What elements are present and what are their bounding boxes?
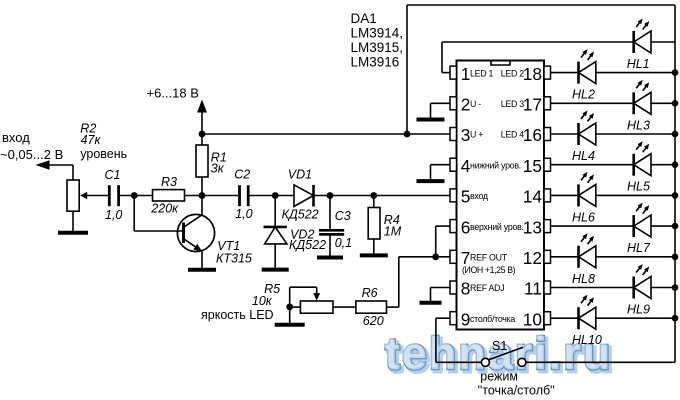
ground VD2 [262, 268, 289, 269]
pin 7 name line2 [462, 265, 516, 275]
wire HL9 to bus [651, 287, 675, 289]
svg-text:S1: S1 [492, 339, 507, 353]
capacitor C2 value [235, 207, 252, 221]
node C3 junction [327, 192, 334, 199]
svg-text:13: 13 [523, 217, 542, 237]
power label +6...18 V [147, 86, 199, 101]
pin 8 number [461, 279, 471, 299]
wire C3 down [329, 236, 331, 257]
pin 7 stub [450, 250, 457, 263]
wire HL3 to bus [651, 102, 675, 104]
svg-text:столб/точка: столб/точка [470, 314, 515, 324]
wire base drop [134, 196, 183, 232]
svg-text:0,1: 0,1 [335, 236, 352, 250]
ground VT1 emitter [188, 269, 216, 270]
svg-text:LED 4: LED 4 [501, 130, 525, 140]
pin 5 stub [450, 189, 457, 202]
svg-text:17: 17 [523, 95, 542, 115]
wire R5 to R6 [333, 306, 356, 308]
svg-text:вход: вход [2, 130, 30, 145]
pin 15 stub [544, 158, 551, 171]
LED HL9 [634, 264, 651, 299]
wire right bus [674, 5, 676, 362]
wire pin2 gnd [431, 103, 451, 118]
wire pin 17 to HL3 [551, 102, 634, 104]
ground R5 [275, 307, 305, 325]
resistor R4 label [384, 213, 402, 238]
svg-text:620: 620 [363, 314, 384, 328]
potentiometer R2 label [80, 122, 127, 162]
pin 3 name [470, 130, 483, 140]
wire HL6 to bus [596, 194, 675, 196]
transistor VT1 base bar [182, 223, 185, 244]
svg-text:12: 12 [523, 248, 542, 268]
pin 17 number [523, 95, 542, 115]
pin 3 stub [450, 128, 457, 141]
wire R1 to rail [201, 177, 203, 196]
svg-text:18: 18 [523, 64, 542, 84]
wire HL8 to bus [596, 256, 675, 258]
wire pin 12 to HL8 [551, 256, 579, 258]
pin 17 name [501, 99, 525, 109]
wire VD1 to pin5 [314, 195, 451, 197]
node power rail junction [199, 131, 206, 138]
LED HL1 label [627, 57, 650, 71]
resistor R6 label [362, 286, 378, 300]
svg-text:REF OUT: REF OUT [470, 253, 508, 263]
svg-text:1: 1 [461, 64, 471, 84]
svg-text:HL9: HL9 [627, 303, 650, 317]
wire riser top [407, 5, 675, 134]
capacitor C1 value [105, 208, 122, 222]
LED HL4 [579, 111, 596, 146]
LED HL4 label [572, 149, 595, 163]
node riser junction [404, 131, 411, 138]
svg-text:REF ADJ: REF ADJ [470, 283, 504, 293]
svg-text:HL6: HL6 [572, 210, 595, 224]
pin 8 stub [450, 281, 457, 294]
pin 9 number [461, 309, 471, 329]
wire pin8 gnd [431, 288, 451, 302]
LED HL5 label [627, 180, 650, 194]
potentiometer R5 label [252, 282, 280, 308]
wire pin 11 to HL9 [551, 287, 634, 289]
wire pin6 [436, 226, 450, 257]
capacitor C1 [109, 185, 118, 206]
pin 10 number [523, 309, 542, 329]
svg-text:VD1: VD1 [288, 168, 312, 182]
svg-text:LED 2: LED 2 [501, 68, 525, 78]
pin 9 stub [450, 312, 457, 325]
svg-text:LM3916: LM3916 [351, 55, 400, 70]
svg-text:3к: 3к [211, 162, 225, 176]
node bus junction HL3 [672, 100, 679, 107]
wire HL10 to bus [596, 317, 675, 319]
ground pin8 [420, 302, 442, 303]
transistor VT1 collector [184, 196, 202, 228]
svg-text:HL5: HL5 [627, 180, 650, 194]
node R4 junction [370, 192, 377, 199]
capacitor C2 label [234, 168, 250, 182]
node bus junction HL7 [672, 223, 679, 230]
diode VD1 label [288, 168, 312, 182]
svg-text:10к: 10к [252, 294, 273, 308]
wire pin 14 to HL6 [551, 194, 579, 196]
wire pin 16 to HL4 [551, 133, 579, 135]
capacitor C3 value [335, 236, 352, 250]
node bus junction HL4 [672, 131, 679, 138]
wire pin1 up [442, 42, 634, 73]
LED HL8 label [572, 272, 595, 286]
wire R2 bottom [72, 211, 74, 231]
svg-text:HL3: HL3 [627, 118, 650, 132]
wire R2 top [72, 165, 74, 180]
svg-text:1М: 1М [384, 225, 402, 239]
node R5 junction [286, 303, 293, 310]
svg-text:вход: вход [470, 191, 488, 201]
svg-text:1,0: 1,0 [235, 207, 252, 221]
svg-text:C3: C3 [335, 209, 351, 223]
ground pin2 [417, 118, 445, 120]
wire S1 to bus [526, 361, 675, 363]
LED HL6 [579, 172, 596, 207]
node collector junction [199, 192, 206, 199]
svg-text:LM3914,: LM3914, [351, 25, 404, 40]
svg-text:верхний уров.: верхний уров. [470, 222, 524, 232]
svg-text:2: 2 [461, 95, 471, 115]
wire R2 input arrow [36, 160, 74, 170]
resistor R6 value [363, 314, 384, 328]
wire R3 to C2 [185, 195, 240, 197]
resistor R4 [368, 208, 380, 240]
capacitor C3 label [335, 209, 351, 223]
svg-text:10: 10 [523, 309, 542, 329]
LED HL7 [634, 203, 651, 238]
pin 2 number [461, 95, 471, 115]
wire R4 down [373, 239, 375, 254]
pin 16 number [523, 125, 542, 145]
svg-text:"точка/столб": "точка/столб" [478, 384, 555, 398]
svg-text:КТ315: КТ315 [216, 252, 252, 266]
resistor R6 [356, 301, 387, 313]
pin 8 name [470, 283, 504, 293]
capacitor C3 [319, 230, 344, 234]
pin 18 stub [544, 66, 551, 79]
svg-text:R6: R6 [362, 286, 378, 300]
svg-text:220к: 220к [150, 202, 179, 216]
pin 1 name [470, 68, 494, 78]
LED HL6 label [572, 210, 595, 224]
wire pin 13 to HL7 [551, 225, 634, 227]
ground R2 [58, 232, 88, 233]
svg-text:КД522: КД522 [289, 238, 326, 252]
transistor VT1 circle [177, 214, 214, 251]
diode VD2 label [289, 228, 326, 253]
switch S1 [481, 347, 526, 366]
wire R6 up [387, 257, 399, 307]
pin 15 number [523, 156, 542, 176]
pin 9 name [470, 314, 515, 324]
svg-text:(ИОН +1,25 В): (ИОН +1,25 В) [462, 265, 516, 275]
wire to S1 [436, 361, 482, 363]
svg-text:~0,05...2 В: ~0,05...2 В [0, 147, 63, 162]
pin 10 stub [544, 312, 551, 325]
ground pin4 [417, 180, 445, 181]
svg-text:КД522: КД522 [282, 207, 319, 221]
pin 14 number [523, 187, 543, 207]
LED HL8 [579, 233, 596, 267]
svg-text:15: 15 [523, 156, 542, 176]
wire R4 top [373, 196, 375, 208]
IC notch [491, 61, 510, 66]
pin 14 stub [544, 189, 551, 202]
wire pin4 gnd [431, 165, 451, 180]
svg-text:HL7: HL7 [627, 241, 651, 255]
pin 5 name [470, 191, 488, 201]
pin 11 stub [544, 281, 551, 294]
IC DA1 label [351, 11, 404, 70]
svg-text:C2: C2 [234, 168, 250, 182]
LED HL10 label [572, 333, 602, 347]
svg-text:LM3915,: LM3915, [351, 40, 404, 55]
switch S1 mode label [478, 369, 555, 397]
svg-text:9: 9 [461, 309, 471, 329]
pin 4 number [461, 156, 471, 176]
wire VD2 down [274, 244, 276, 268]
svg-text:1,0: 1,0 [105, 208, 122, 222]
pin 12 number [523, 248, 542, 268]
wire HL7 to bus [651, 225, 675, 227]
LED HL10 [579, 295, 596, 330]
node bus junction HL9 [672, 284, 679, 291]
svg-text:HL8: HL8 [572, 272, 595, 286]
wire pin 18 to HL2 [551, 72, 579, 74]
svg-text:нижний уров.: нижний уров. [470, 160, 521, 170]
wire pin 15 to HL5 [551, 164, 634, 166]
LED HL2 label [572, 88, 595, 102]
node bus junction HL10 [672, 315, 679, 322]
resistor R3 [153, 190, 185, 201]
svg-text:5: 5 [461, 187, 471, 207]
LED HL5 [634, 141, 651, 176]
pin 17 stub [544, 97, 551, 110]
svg-text:U -: U - [470, 99, 481, 109]
svg-text:LED 1: LED 1 [470, 68, 494, 78]
wire C1 to R3 [119, 195, 153, 197]
watermark tehnari.ru [384, 327, 616, 382]
resistor R3 label [161, 175, 177, 189]
svg-text:C1: C1 [105, 168, 121, 182]
resistor R3 value [150, 202, 179, 216]
pin 3 number [461, 125, 471, 145]
svg-text:16: 16 [523, 125, 542, 145]
switch S1 label [492, 339, 507, 353]
svg-text:LED 3: LED 3 [501, 99, 525, 109]
diode VD2 [264, 227, 287, 244]
wire C3 top [329, 196, 331, 230]
wire HL5 to bus [651, 164, 675, 166]
node A junction [131, 192, 138, 199]
wire VD2 drop [274, 196, 276, 227]
pin 13 stub [544, 220, 551, 233]
capacitor C1 label [105, 168, 121, 182]
pin 5 number [461, 187, 471, 207]
potentiometer R5 [300, 301, 333, 313]
svg-text:HL2: HL2 [572, 88, 595, 102]
node VD2 junction [272, 192, 279, 199]
svg-text:HL4: HL4 [572, 149, 595, 163]
svg-text:R3: R3 [161, 175, 177, 189]
svg-text:14: 14 [523, 187, 543, 207]
ground R4 [360, 254, 388, 255]
diode VD1 [294, 185, 314, 207]
ground C3 [317, 256, 343, 257]
wire power arrow [197, 100, 207, 146]
svg-text:6: 6 [461, 217, 471, 237]
svg-text:DA1: DA1 [351, 11, 377, 26]
LED HL2 [579, 49, 596, 84]
pin 12 stub [544, 250, 551, 263]
resistor R1 label [211, 151, 227, 176]
resistor R1 [196, 145, 208, 177]
node bus junction HL6 [672, 192, 679, 199]
wire V rail [202, 133, 450, 135]
LED HL7 label [627, 241, 651, 255]
svg-text:47к: 47к [81, 133, 102, 147]
LED HL9 label [627, 303, 650, 317]
pin 13 number [523, 217, 542, 237]
node bus junction HL8 [672, 253, 679, 260]
svg-text:U +: U + [470, 130, 483, 140]
pin 2 name [470, 99, 481, 109]
brightness label [201, 308, 274, 322]
diode VD1 value [282, 207, 319, 221]
node bus junction HL2 [672, 69, 679, 76]
LED HL1 [634, 19, 651, 54]
svg-text:уровень: уровень [80, 147, 127, 161]
svg-text:яркость LED: яркость LED [201, 308, 274, 322]
pin 18 number [523, 64, 542, 84]
pin 18 name [501, 68, 525, 78]
node pins 6-7 junction [432, 253, 439, 260]
wire pin7 [399, 256, 450, 258]
LED HL3 label [627, 118, 650, 132]
pin 11 number [524, 279, 542, 299]
pin 4 name [470, 160, 521, 170]
wire R5 left [290, 306, 301, 308]
node bus junction HL5 [672, 161, 679, 168]
pin 1 stub [450, 66, 457, 79]
pin 6 number [461, 217, 471, 237]
wire emitter down [201, 252, 203, 269]
wire HL2 to bus [596, 72, 675, 74]
potentiometer R2 [67, 180, 79, 211]
pin 6 stub [450, 220, 457, 233]
pin 7 name [470, 253, 508, 263]
wire HL1 to bus [651, 41, 675, 43]
svg-text:режим: режим [480, 369, 518, 383]
wire pin 10 to HL10 [551, 317, 579, 319]
pin 1 number [461, 64, 471, 84]
wire C2 to VD1 [248, 195, 294, 197]
transistor VT1 emitter [184, 239, 202, 252]
pin 16 stub [544, 128, 551, 141]
svg-text:3: 3 [461, 125, 471, 145]
capacitor C2 [240, 185, 249, 206]
pin 16 name [501, 130, 525, 140]
input label [0, 130, 63, 162]
LED HL3 [634, 80, 651, 115]
wire R2 wiper [80, 192, 108, 200]
svg-text:+6...18 В: +6...18 В [147, 86, 199, 101]
svg-text:8: 8 [461, 279, 471, 299]
wire pin9 [436, 318, 450, 362]
pin 7 number [461, 248, 471, 268]
svg-text:HL1: HL1 [627, 57, 650, 71]
wire HL4 to bus [596, 133, 675, 135]
pin 2 stub [450, 97, 457, 110]
transistor VT1 label [216, 239, 252, 265]
potentiometer R5 wiper [290, 287, 321, 307]
svg-text:HL10: HL10 [572, 333, 602, 347]
IC DA1 LM3914 body [457, 61, 545, 330]
pin 4 stub [450, 158, 457, 171]
pin 6 name [470, 222, 524, 232]
svg-text:11: 11 [524, 279, 542, 299]
